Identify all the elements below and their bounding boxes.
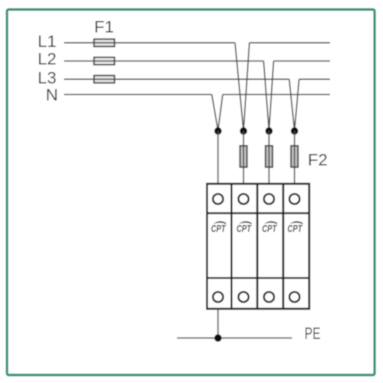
fuse F1 pole 2 <box>94 57 115 64</box>
svg-text:L2: L2 <box>38 50 57 69</box>
wire column 1 <box>217 131 219 184</box>
wire N tap V <box>212 95 223 131</box>
svg-text:L1: L1 <box>38 32 57 51</box>
wire N right <box>223 94 330 96</box>
svg-text:CPT: CPT <box>262 224 277 235</box>
svg-text:CPT: CPT <box>237 224 252 235</box>
svg-text:N: N <box>46 85 58 104</box>
terminal circle module1 bottom <box>213 292 223 302</box>
terminal circle module4 top <box>289 194 299 204</box>
svg-text:CPT: CPT <box>288 224 303 235</box>
wire L1 right <box>249 42 330 44</box>
wire L1 tap V <box>235 43 249 131</box>
logo CPT module2 <box>237 221 252 235</box>
wire L2 tap V <box>264 61 274 131</box>
wire column 3 <box>268 131 270 184</box>
terminal circle module4 bottom <box>289 292 299 302</box>
wire L3 tap V <box>289 79 299 130</box>
fuse F2 pole 3 <box>266 146 273 167</box>
wire L3 right <box>299 78 330 80</box>
junction node PE <box>214 334 221 341</box>
wire column 4 <box>294 131 296 184</box>
wire L3 left <box>64 78 289 80</box>
svg-text:F1: F1 <box>94 18 114 37</box>
logo CPT module4 <box>288 221 303 235</box>
fuse F2 pole 2 <box>240 146 247 167</box>
SPD module separator 3-4 <box>282 184 284 309</box>
SPD module separator 1-2 <box>231 184 233 309</box>
wire column 2 <box>243 131 245 184</box>
logo CPT module1 <box>211 221 226 235</box>
SPD top terminals divider <box>207 212 309 214</box>
wire PE bus <box>177 337 292 339</box>
junction node 3 <box>265 127 272 134</box>
terminal circle module2 bottom <box>238 292 248 302</box>
fuse F1 pole 3 <box>94 76 115 83</box>
wire L2 left <box>64 60 264 62</box>
terminal circle module3 top <box>264 194 274 204</box>
svg-text:CPT: CPT <box>211 224 226 235</box>
wire N left <box>64 94 212 96</box>
terminal circle module1 top <box>213 194 223 204</box>
svg-text:PE: PE <box>305 324 321 343</box>
junction node 2 <box>240 127 247 134</box>
wire PE drop <box>217 309 219 338</box>
terminal circle module3 bottom <box>264 292 274 302</box>
junction node 1 <box>214 127 221 134</box>
wire L2 right <box>274 60 330 62</box>
fuse F2 pole 4 <box>291 146 298 167</box>
svg-text:F2: F2 <box>308 151 328 170</box>
terminal circle module2 top <box>238 194 248 204</box>
logo CPT module3 <box>262 221 277 235</box>
SPD U1 housing <box>207 184 309 309</box>
fuse F1 pole 1 <box>94 39 115 46</box>
SPD bottom terminals divider <box>207 277 309 279</box>
SPD module separator 2-3 <box>256 184 258 309</box>
wire L1 left <box>64 42 235 44</box>
junction node 4 <box>291 127 298 134</box>
